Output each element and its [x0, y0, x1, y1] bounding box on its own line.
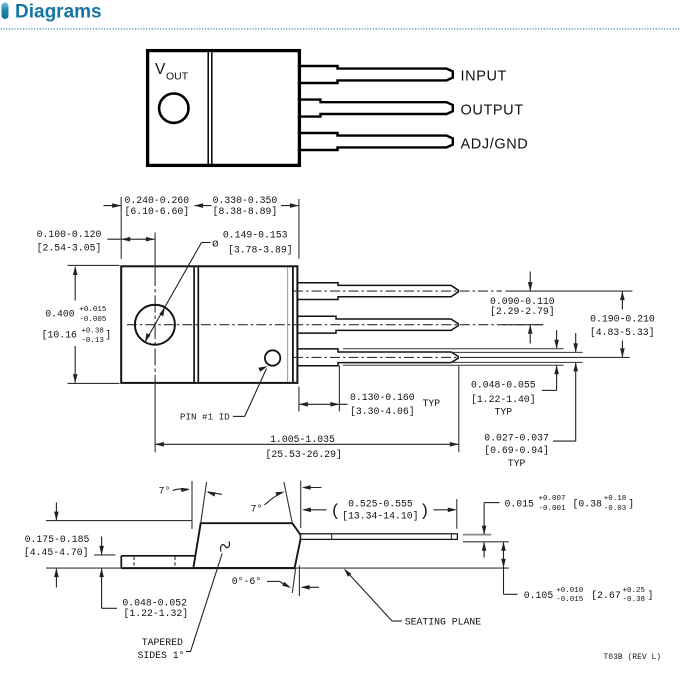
lead 2 outline — [298, 316, 458, 333]
svg-text:[2.67: [2.67 — [591, 590, 621, 601]
body profile — [193, 523, 300, 568]
svg-text:-0.001: -0.001 — [539, 505, 567, 513]
body outline front view — [121, 266, 297, 383]
tab left end — [120, 556, 122, 568]
right slant extension — [284, 482, 292, 523]
svg-text:0.100-0.120: 0.100-0.120 — [37, 229, 102, 240]
svg-text:[25.53-26.29]: [25.53-26.29] — [265, 449, 341, 460]
svg-text:[6.10-6.60]: [6.10-6.60] — [124, 206, 189, 217]
svg-text:INPUT: INPUT — [461, 69, 508, 85]
lead section tick 1 — [331, 534, 333, 540]
svg-text:0.105: 0.105 — [524, 590, 554, 601]
svg-text:SEATING PLANE: SEATING PLANE — [405, 616, 482, 627]
svg-text:[4.45-4.70]: [4.45-4.70] — [24, 547, 89, 558]
label 7 deg right — [251, 492, 285, 515]
right vertical angle arrow — [302, 485, 322, 490]
dimension 0.105 standoff — [501, 542, 653, 604]
lead 3 thickness extension lines (0.027-0.037) — [450, 351, 583, 353]
svg-text:(: ( — [330, 503, 340, 522]
bottom right vertical reference — [298, 566, 300, 597]
hidden hole edge line 2 — [174, 557, 176, 568]
dimension 0.175-0.185 body height — [24, 502, 90, 587]
header dotted rule — [1, 28, 680, 30]
lead 2 (OUTPUT) — [299, 100, 453, 117]
label 7 deg left — [159, 486, 191, 497]
svg-text:ADJ/GND: ADJ/GND — [461, 137, 529, 153]
svg-text:T03B (REV L): T03B (REV L) — [604, 653, 662, 662]
tab separator double line — [193, 267, 195, 382]
lead 3 centerline — [293, 356, 458, 358]
pin #1 ID circle — [265, 350, 280, 365]
label 0-6 deg — [232, 576, 319, 590]
svg-text:7°: 7° — [159, 486, 171, 497]
svg-text:7°: 7° — [251, 504, 263, 515]
svg-text:[2.54-3.05]: [2.54-3.05] — [37, 243, 102, 254]
dimension 0.015 lead thickness — [463, 495, 634, 558]
svg-text:[0.69-0.94]: [0.69-0.94] — [484, 445, 549, 456]
hole diameter dimension ø 0.149-0.153 — [145, 229, 293, 342]
svg-text:0.048-0.052: 0.048-0.052 — [122, 598, 187, 609]
svg-text:-0.03: -0.03 — [604, 505, 627, 513]
svg-text:]: ] — [105, 330, 111, 341]
svg-text:PIN #1 ID: PIN #1 ID — [180, 412, 230, 423]
svg-text:0.190-0.210: 0.190-0.210 — [590, 313, 655, 324]
dimension 0.130-0.160 TYP — [299, 366, 440, 417]
lead section tick 2 — [450, 534, 452, 540]
svg-text:[3.30-4.06]: [3.30-4.06] — [350, 406, 415, 417]
svg-text:[1.22-1.40]: [1.22-1.40] — [471, 394, 536, 405]
dimension 0.090-0.110 lead pitch — [490, 272, 555, 344]
left slant angle arrow — [206, 492, 222, 497]
body inner right edge line — [292, 266, 294, 383]
lead side view — [301, 534, 458, 540]
svg-text:-0.015: -0.015 — [556, 596, 584, 604]
svg-text:0.015: 0.015 — [505, 499, 535, 510]
dimension 0.400 body height — [42, 265, 120, 383]
svg-text:[4.83-5.33]: [4.83-5.33] — [590, 327, 655, 338]
left vertical reference — [191, 481, 193, 529]
dimension 0.048-0.052 tab thickness — [94, 537, 188, 620]
svg-text:0.048-0.055: 0.048-0.055 — [471, 379, 536, 390]
svg-text:TYP: TYP — [423, 398, 441, 409]
svg-text:0.027-0.037: 0.027-0.037 — [484, 432, 549, 443]
dimension 0.525-0.555 lead length — [302, 499, 457, 529]
svg-text:V: V — [155, 61, 166, 78]
dimension 0.027-0.037 TYP lead thickness — [484, 333, 578, 469]
svg-text:-0.38: -0.38 — [623, 596, 646, 604]
top reference line — [46, 520, 192, 522]
pin #1 ID label and leader — [180, 366, 268, 422]
tapered sides label — [137, 542, 229, 662]
svg-text:+0.007: +0.007 — [539, 495, 566, 503]
svg-text:OUT: OUT — [166, 71, 189, 83]
svg-text:OUTPUT: OUTPUT — [461, 103, 524, 119]
lead 3 width extension lines (0.048-0.055) — [343, 348, 564, 350]
svg-text:TYP: TYP — [494, 407, 512, 418]
right vertical reference — [300, 481, 302, 528]
dimension 0.330-0.350 — [213, 195, 299, 258]
svg-text:0.130-0.160: 0.130-0.160 — [350, 392, 415, 403]
svg-text:0.525-0.555: 0.525-0.555 — [348, 499, 413, 510]
svg-text:-0.13: -0.13 — [81, 337, 104, 345]
lead 3 (ADJ/GND) — [299, 133, 453, 150]
seating plane line thin right — [294, 567, 509, 569]
seating plane label — [344, 569, 481, 628]
svg-text:[10.16: [10.16 — [42, 330, 77, 341]
svg-text:0.149-0.153: 0.149-0.153 — [223, 229, 288, 240]
svg-text:+0.010: +0.010 — [556, 587, 584, 595]
svg-text:SIDES 1°: SIDES 1° — [137, 650, 184, 661]
svg-text:+0.25: +0.25 — [623, 587, 646, 595]
svg-text:+0.015: +0.015 — [79, 306, 107, 314]
svg-text:]: ] — [628, 499, 634, 510]
lead 1 (INPUT) — [299, 66, 453, 83]
lead 3 center reference line (right) — [460, 356, 630, 358]
seating plane line thin left — [46, 567, 122, 569]
lead 3 outline — [298, 349, 458, 366]
svg-text:[0.38: [0.38 — [573, 499, 603, 510]
dimension 0.240-0.260 — [104, 195, 212, 259]
body bottom thick seating edge — [121, 567, 294, 569]
dimension 0.190-0.210 — [590, 291, 655, 357]
lead 2 reference line (right) — [503, 324, 544, 326]
dimension 1.005-1.035 — [155, 366, 459, 460]
lead 1 reference line (right) — [505, 290, 632, 292]
lead 1 centerline — [293, 290, 502, 292]
mounting hole — [135, 305, 175, 345]
svg-text:TAPERED: TAPERED — [142, 637, 183, 648]
svg-text:0.175-0.185: 0.175-0.185 — [25, 534, 90, 545]
tab separator double line — [207, 52, 209, 165]
tab top edge — [121, 555, 195, 557]
svg-text:+0.18: +0.18 — [604, 495, 627, 503]
horizontal centerline through hole and lead 2 — [127, 324, 543, 326]
svg-text:0.330-0.350: 0.330-0.350 — [213, 195, 278, 206]
left slant extension — [201, 482, 207, 523]
dimension 0.048-0.055 TYP lead width — [471, 330, 559, 418]
svg-text:1.005-1.035: 1.005-1.035 — [270, 434, 335, 445]
package body outline — [148, 51, 300, 166]
svg-text:ø: ø — [212, 239, 219, 251]
svg-text:]: ] — [648, 590, 654, 601]
svg-text:TYP: TYP — [508, 458, 526, 469]
mounting hole — [159, 94, 188, 123]
dimension 0.100-0.120 — [37, 229, 155, 254]
svg-text:[13.34-14.10]: [13.34-14.10] — [342, 510, 418, 521]
header pill icon — [2, 3, 9, 20]
svg-text:[8.38-8.89]: [8.38-8.89] — [213, 206, 278, 217]
svg-text:[3.78-3.89]: [3.78-3.89] — [228, 244, 293, 255]
svg-text:0.240-0.260: 0.240-0.260 — [124, 195, 189, 206]
svg-text:0°-6°: 0°-6° — [232, 576, 261, 587]
hidden hole edge line 1 — [133, 557, 135, 568]
svg-text:): ) — [419, 503, 429, 522]
svg-text:[1.22-1.32]: [1.22-1.32] — [124, 608, 189, 619]
svg-text:0.400: 0.400 — [45, 309, 75, 320]
hole vertical centerline — [154, 233, 156, 270]
svg-text:+0.38: +0.38 — [81, 327, 104, 335]
svg-text:-0.005: -0.005 — [79, 316, 107, 324]
svg-text:Diagrams: Diagrams — [15, 2, 102, 23]
svg-text:[2.29-2.79]: [2.29-2.79] — [490, 306, 555, 317]
right edge bottom extension — [292, 569, 295, 594]
thin mold line near right edge — [287, 268, 289, 383]
lead 1 outline — [298, 283, 458, 300]
